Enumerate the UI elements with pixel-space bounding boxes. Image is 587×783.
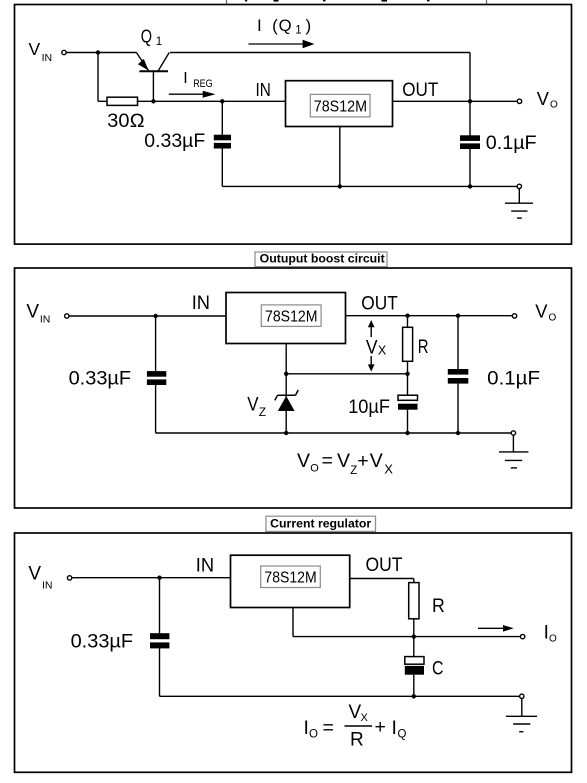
svg-text:X: X <box>378 344 387 358</box>
svg-text:30Ω: 30Ω <box>107 111 145 132</box>
svg-text:0.1µF: 0.1µF <box>486 133 537 154</box>
svg-text:OUT: OUT <box>366 555 403 576</box>
svg-text:(: ( <box>272 16 278 35</box>
svg-text:O: O <box>550 100 558 111</box>
svg-text:Q: Q <box>279 16 292 35</box>
svg-text:IN: IN <box>42 52 53 64</box>
svg-text:O: O <box>310 463 319 475</box>
svg-text:V: V <box>29 39 41 59</box>
svg-text:R: R <box>432 596 445 617</box>
svg-text:V: V <box>26 302 39 323</box>
svg-text:OUT: OUT <box>361 293 398 314</box>
svg-text:0.33µF: 0.33µF <box>71 631 134 652</box>
svg-text:Outuput boost circuit: Outuput boost circuit <box>260 253 385 265</box>
svg-text:=: = <box>323 717 334 739</box>
svg-text:IN: IN <box>196 554 214 576</box>
svg-text:0.33µF: 0.33µF <box>144 131 205 152</box>
svg-text:0.1µF: 0.1µF <box>487 368 540 389</box>
svg-text:V: V <box>537 88 550 109</box>
svg-text:78S12M: 78S12M <box>314 99 367 116</box>
svg-text:I: I <box>392 717 397 739</box>
svg-text:1: 1 <box>156 36 162 48</box>
svg-text:Z: Z <box>350 465 357 477</box>
svg-text:V: V <box>370 450 383 472</box>
svg-text:10µF: 10µF <box>348 397 390 418</box>
svg-text:=: = <box>322 450 333 472</box>
svg-text:V: V <box>535 300 548 321</box>
svg-text:Z: Z <box>259 405 266 419</box>
svg-text:Q: Q <box>398 729 407 741</box>
svg-text:I: I <box>257 16 262 35</box>
svg-text:O: O <box>549 634 557 645</box>
svg-text:IN: IN <box>42 580 53 592</box>
svg-text:IN: IN <box>192 292 210 314</box>
svg-text:1: 1 <box>295 25 301 37</box>
svg-text:OUT: OUT <box>402 80 438 101</box>
svg-text:V: V <box>247 395 259 416</box>
svg-text:V: V <box>366 338 378 359</box>
svg-text:V: V <box>28 563 41 584</box>
svg-text:IN: IN <box>40 313 51 325</box>
svg-text:O: O <box>549 313 557 324</box>
svg-text:V: V <box>297 450 310 472</box>
svg-text:R: R <box>350 730 364 751</box>
svg-text:): ) <box>306 16 312 35</box>
svg-text:78S12M: 78S12M <box>264 570 316 587</box>
svg-text:Current regulator: Current regulator <box>270 518 372 530</box>
svg-text:IN: IN <box>256 79 271 100</box>
svg-text:+: + <box>375 716 386 738</box>
svg-text:C: C <box>432 658 444 679</box>
svg-text:+: + <box>357 450 368 472</box>
svg-text:REG: REG <box>193 78 213 90</box>
svg-text:V: V <box>337 450 350 472</box>
svg-text:X: X <box>361 712 369 724</box>
svg-text:R: R <box>418 337 429 358</box>
svg-text:Q: Q <box>141 27 152 47</box>
svg-text:78S12M: 78S12M <box>265 309 318 326</box>
svg-text:O: O <box>309 729 318 741</box>
svg-text:X: X <box>384 461 393 476</box>
svg-text:0.33µF: 0.33µF <box>69 368 132 389</box>
svg-text:I: I <box>183 70 187 87</box>
